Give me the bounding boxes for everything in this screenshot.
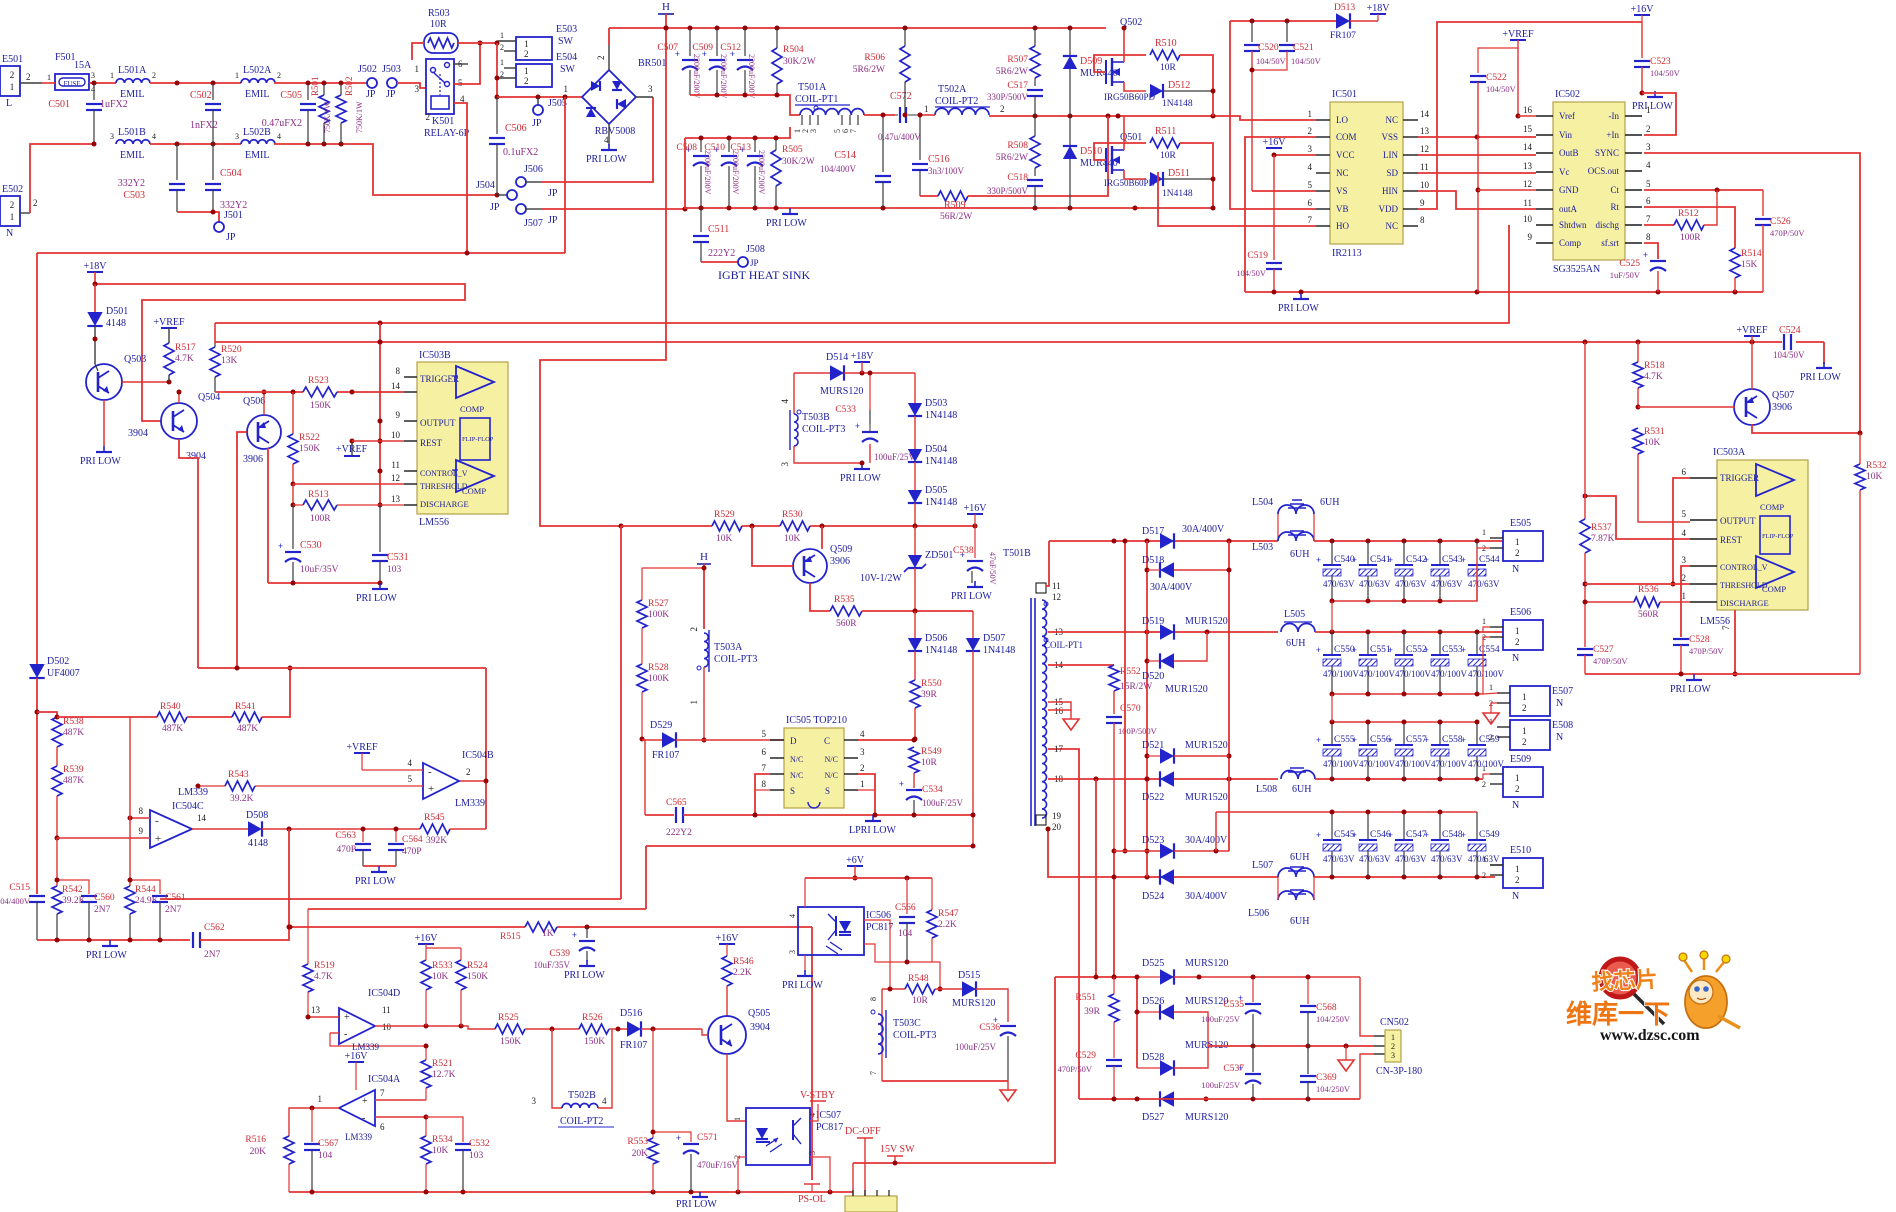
svg-text:COM: COM xyxy=(1336,132,1357,142)
svg-text:30A/400V: 30A/400V xyxy=(1150,582,1193,593)
svg-text:D525: D525 xyxy=(1142,958,1164,969)
svg-text:H: H xyxy=(662,1,670,13)
wire Q507 emitter xyxy=(1751,342,1753,390)
wire Ct xyxy=(1644,189,1763,191)
diode D505 xyxy=(914,462,916,490)
svg-text:R520: R520 xyxy=(221,345,242,355)
svg-text:R509: R509 xyxy=(944,200,966,211)
svg-text:13: 13 xyxy=(391,494,401,504)
svg-text:12: 12 xyxy=(1052,592,1061,602)
wire HIN-outA xyxy=(1418,191,1536,209)
svg-text:470/63V: 470/63V xyxy=(1431,854,1463,864)
svg-text:3: 3 xyxy=(1646,142,1651,152)
svg-text:C526: C526 xyxy=(1770,217,1791,227)
svg-text:10: 10 xyxy=(1523,214,1533,224)
svg-text:-In: -In xyxy=(1609,111,1620,121)
diode D521 xyxy=(1147,755,1160,757)
svg-text:C369: C369 xyxy=(1316,1073,1337,1083)
wire line y846 xyxy=(646,845,973,847)
svg-text:+: + xyxy=(1388,735,1393,745)
svg-text:17: 17 xyxy=(1054,744,1064,754)
svg-text:R551: R551 xyxy=(1075,993,1096,1003)
svg-text:D503: D503 xyxy=(925,398,947,409)
svg-text:1: 1 xyxy=(1482,855,1486,864)
svg-text:1: 1 xyxy=(564,84,569,94)
svg-text:5R6/2W: 5R6/2W xyxy=(996,67,1028,77)
svg-text:R536: R536 xyxy=(1638,585,1659,595)
svg-text:FUSE: FUSE xyxy=(63,80,80,88)
IC503A xyxy=(1717,460,1808,610)
svg-text:150K: 150K xyxy=(584,1037,605,1047)
wire Q507 base xyxy=(1638,406,1735,408)
svg-text:C553: C553 xyxy=(1442,645,1463,655)
wire pin15 16 gnd xyxy=(1048,702,1071,710)
wire GND pin xyxy=(1478,189,1536,191)
svg-text:470/100V: 470/100V xyxy=(1323,669,1360,679)
svg-text:7: 7 xyxy=(1308,215,1313,225)
svg-text:D504: D504 xyxy=(925,444,947,455)
svg-text:CONTROL_V: CONTROL_V xyxy=(420,469,468,478)
wire J506 to bridge+ xyxy=(526,181,542,183)
power +18V right xyxy=(1370,13,1386,15)
svg-text:PRI LOW: PRI LOW xyxy=(586,154,627,165)
svg-text:560R: 560R xyxy=(836,619,857,629)
svg-text:+: + xyxy=(1424,555,1429,565)
svg-text:R526: R526 xyxy=(582,1013,603,1023)
svg-text:E502: E502 xyxy=(2,184,23,195)
svg-text:PRI LOW: PRI LOW xyxy=(356,593,397,604)
svg-text:R528: R528 xyxy=(648,663,669,673)
svg-text:13: 13 xyxy=(311,1005,321,1015)
ground tri E507 xyxy=(1491,703,1497,713)
svg-text:D502: D502 xyxy=(47,656,69,667)
svg-text:104/250V: 104/250V xyxy=(1316,1084,1351,1094)
svg-text:VS: VS xyxy=(1336,186,1348,196)
wire COM down xyxy=(1245,137,1316,292)
wire cap row bus xyxy=(1332,693,1483,695)
svg-text:8: 8 xyxy=(762,779,767,789)
capacitor C547 xyxy=(1403,812,1405,840)
svg-text:IC502: IC502 xyxy=(1555,89,1580,100)
svg-text:1: 1 xyxy=(1482,617,1486,626)
wire R541 up to 668 xyxy=(262,668,290,717)
svg-text:2: 2 xyxy=(33,198,38,208)
svg-text:C528: C528 xyxy=(1689,635,1710,645)
svg-text:Q507: Q507 xyxy=(1772,390,1794,401)
svg-text:1: 1 xyxy=(10,82,15,92)
svg-text:4148: 4148 xyxy=(248,838,268,849)
svg-text:IC506: IC506 xyxy=(866,910,891,921)
svg-text:16: 16 xyxy=(1054,706,1064,716)
svg-text:104/50V: 104/50V xyxy=(1291,56,1322,66)
wire VS xyxy=(1252,190,1316,192)
connector E505 xyxy=(1503,531,1543,561)
resistor R532 right rail xyxy=(1859,433,1861,464)
svg-text:470/63V: 470/63V xyxy=(1323,854,1355,864)
svg-text:IC504B: IC504B xyxy=(462,750,494,761)
wire Q503 emitter xyxy=(103,400,105,446)
svg-text:4: 4 xyxy=(277,132,281,141)
wire cap row bus xyxy=(1332,565,1477,601)
capacitor C504 xyxy=(212,144,214,180)
svg-text:REST: REST xyxy=(420,438,443,448)
capacitor C536 xyxy=(1000,1025,1016,1027)
ground PRI LOW 503A xyxy=(1693,674,1695,680)
ground PRI LOW bank xyxy=(789,208,791,214)
resistor R535 xyxy=(830,606,862,616)
capacitor C538 xyxy=(974,526,976,558)
svg-text:4.7K: 4.7K xyxy=(1644,372,1663,382)
svg-text:E510: E510 xyxy=(1510,845,1531,856)
svg-text:IGBT HEAT SINK: IGBT HEAT SINK xyxy=(718,268,811,282)
svg-text:C538: C538 xyxy=(953,546,974,556)
svg-text:2: 2 xyxy=(1515,548,1520,558)
svg-text:+: + xyxy=(1388,645,1393,655)
wire IC507 pin2 xyxy=(738,1156,746,1158)
svg-text:10: 10 xyxy=(391,430,401,440)
transistor Q509 xyxy=(793,549,827,583)
svg-text:D517: D517 xyxy=(1142,526,1164,537)
svg-text:5R6/2W: 5R6/2W xyxy=(853,65,885,75)
svg-text:16: 16 xyxy=(1523,105,1533,115)
svg-text:EMIL: EMIL xyxy=(120,150,144,161)
ground bottom xyxy=(699,1192,701,1197)
jumper J501 xyxy=(214,222,224,232)
svg-text:470/63V: 470/63V xyxy=(1395,579,1427,589)
resistor R511 xyxy=(1150,138,1180,148)
capacitor C564 xyxy=(395,829,397,842)
capacitor C511 xyxy=(700,208,702,232)
svg-text:14: 14 xyxy=(1523,142,1533,152)
svg-text:470/100V: 470/100V xyxy=(1359,669,1396,679)
svg-text:47uF/50V: 47uF/50V xyxy=(988,552,997,585)
power +16V Q505 xyxy=(719,943,735,945)
svg-text:维库一下: 维库一下 xyxy=(1566,999,1670,1029)
svg-text:5: 5 xyxy=(1646,179,1651,189)
diode D513 xyxy=(1336,13,1350,28)
svg-text:T502B: T502B xyxy=(568,1090,596,1101)
svg-text:+: + xyxy=(572,930,577,940)
svg-text:10K: 10K xyxy=(432,1146,449,1156)
svg-text:T503C: T503C xyxy=(893,1018,921,1029)
svg-text:C517: C517 xyxy=(1007,81,1028,91)
svg-text:+VREF: +VREF xyxy=(153,317,185,328)
svg-text:1: 1 xyxy=(10,212,15,222)
ground bridge xyxy=(608,124,610,146)
wire R547 down xyxy=(930,962,940,989)
svg-text:3: 3 xyxy=(1308,144,1313,154)
svg-text:2N7: 2N7 xyxy=(165,905,182,915)
power +18V xyxy=(87,271,103,273)
svg-text:2: 2 xyxy=(1482,780,1486,789)
svg-text:LM556: LM556 xyxy=(419,517,449,528)
inductor L502B xyxy=(241,140,275,144)
svg-text:R518: R518 xyxy=(1644,361,1665,371)
svg-text:PC817: PC817 xyxy=(816,1122,843,1133)
capacitor C369 xyxy=(1307,1046,1309,1074)
svg-text:D506: D506 xyxy=(925,633,947,644)
wire relay pin6 xyxy=(454,63,468,65)
svg-text:JP: JP xyxy=(750,258,759,268)
svg-text:Ct: Ct xyxy=(1610,185,1619,195)
svg-text:E503: E503 xyxy=(556,24,577,35)
svg-text:PRI LOW: PRI LOW xyxy=(840,473,881,484)
svg-text:470/63V: 470/63V xyxy=(1359,579,1391,589)
svg-text:C532: C532 xyxy=(469,1139,490,1149)
svg-text:R552: R552 xyxy=(1120,667,1141,677)
svg-text:8: 8 xyxy=(139,806,144,816)
capacitor C501 xyxy=(93,83,95,100)
svg-text:1: 1 xyxy=(500,31,504,40)
svg-text:2: 2 xyxy=(1522,703,1527,713)
IC505 TOP210 xyxy=(784,728,844,808)
svg-text:LM339: LM339 xyxy=(345,1132,373,1142)
svg-text:5: 5 xyxy=(1682,509,1687,519)
capacitor C519 xyxy=(1273,155,1275,260)
capacitor C502 xyxy=(212,83,214,100)
zener ZD501 xyxy=(914,526,916,555)
svg-text:470P/50V: 470P/50V xyxy=(1689,646,1724,656)
svg-text:JP: JP xyxy=(548,215,558,226)
wire 15V SW line xyxy=(853,977,1055,1163)
svg-text:N: N xyxy=(1512,891,1519,902)
svg-text:PRI LOW: PRI LOW xyxy=(564,970,605,981)
svg-text:3: 3 xyxy=(110,132,114,141)
svg-text:D: D xyxy=(790,736,797,746)
wire xyxy=(274,82,367,84)
svg-text:7: 7 xyxy=(869,1071,878,1075)
svg-text:+: + xyxy=(1316,830,1321,840)
svg-text:+: + xyxy=(1461,735,1466,745)
svg-text:JP: JP xyxy=(490,202,500,213)
wire gnd line y940 xyxy=(37,939,190,941)
wire IC504D out xyxy=(375,1026,495,1029)
svg-text:C507: C507 xyxy=(657,43,678,53)
svg-text:2: 2 xyxy=(689,627,699,632)
capacitor C537 xyxy=(1252,1046,1254,1072)
svg-text:+18V: +18V xyxy=(1367,3,1391,14)
wire pin13 line632 xyxy=(1048,631,1278,633)
wire output col x380 xyxy=(379,323,381,505)
svg-text:T503B: T503B xyxy=(802,412,830,423)
svg-text:6UH: 6UH xyxy=(1290,916,1309,927)
capacitor C513 xyxy=(754,138,756,152)
svg-text:C564: C564 xyxy=(402,835,423,845)
svg-text:750K/1W: 750K/1W xyxy=(323,101,332,133)
svg-text:30K/2W: 30K/2W xyxy=(783,57,816,67)
svg-text:2: 2 xyxy=(1000,104,1005,114)
svg-text:1: 1 xyxy=(1489,683,1493,692)
svg-text:FLIP-FLOP: FLIP-FLOP xyxy=(462,436,494,443)
svg-text:R527: R527 xyxy=(648,599,669,609)
svg-text:2: 2 xyxy=(1515,637,1520,647)
wire IC507 pin3 xyxy=(810,1157,830,1192)
svg-text:+16V: +16V xyxy=(1631,4,1655,15)
capacitor C528 xyxy=(1673,638,1689,640)
svg-text:150K: 150K xyxy=(299,444,320,454)
svg-text:C516: C516 xyxy=(928,154,950,165)
svg-text:+: + xyxy=(1461,645,1466,655)
svg-text:PRI LOW: PRI LOW xyxy=(1800,372,1841,383)
wire REST line xyxy=(352,440,404,442)
svg-text:3: 3 xyxy=(1391,1051,1395,1060)
svg-text:Q503: Q503 xyxy=(124,354,146,365)
svg-text:2200uF/200V: 2200uF/200V xyxy=(692,54,701,99)
svg-text:IR2113: IR2113 xyxy=(1332,248,1362,259)
svg-text:1nFX2: 1nFX2 xyxy=(190,120,218,131)
svg-text:C562: C562 xyxy=(204,923,225,933)
svg-text:4148: 4148 xyxy=(106,318,126,329)
svg-text:470P/50V: 470P/50V xyxy=(1593,656,1628,666)
svg-text:R546: R546 xyxy=(733,957,754,967)
resistor R506 xyxy=(904,28,906,46)
svg-text:R553: R553 xyxy=(627,1137,648,1147)
svg-text:R524: R524 xyxy=(467,961,488,971)
svg-text:N: N xyxy=(1512,653,1519,664)
svg-text:IC504D: IC504D xyxy=(368,988,400,999)
svg-text:100K: 100K xyxy=(648,610,669,620)
svg-text:F501: F501 xyxy=(55,52,76,63)
svg-text:1: 1 xyxy=(1308,109,1313,119)
svg-text:C520: C520 xyxy=(1258,43,1279,53)
svg-text:C537: C537 xyxy=(1223,1064,1244,1074)
wire pin11 to line541 xyxy=(1046,541,1049,586)
wire L507 out xyxy=(1314,876,1495,878)
svg-text:+: + xyxy=(1352,555,1357,565)
svg-text:30A/400V: 30A/400V xyxy=(1185,835,1228,846)
connector E509 xyxy=(1503,767,1543,797)
wire Q503 base xyxy=(122,381,169,383)
svg-text:JP: JP xyxy=(532,118,542,129)
svg-text:D511: D511 xyxy=(1168,168,1190,179)
svg-text:150K: 150K xyxy=(500,1037,521,1047)
svg-text:OutB: OutB xyxy=(1559,148,1579,158)
diode D523 xyxy=(1114,850,1160,852)
svg-text:11: 11 xyxy=(1523,198,1532,208)
svg-text:2: 2 xyxy=(1682,573,1687,583)
ground T503B xyxy=(861,463,863,469)
svg-text:C519: C519 xyxy=(1247,251,1268,261)
svg-text:4.7K: 4.7K xyxy=(175,354,194,364)
svg-text:DC-OFF: DC-OFF xyxy=(845,1126,881,1137)
svg-text:104/50V: 104/50V xyxy=(1773,350,1805,360)
svg-text:6UH: 6UH xyxy=(1286,638,1305,649)
wire threshold line xyxy=(293,483,404,485)
svg-text:LM556: LM556 xyxy=(1700,616,1730,627)
wire SD-Vc xyxy=(1418,172,1536,174)
svg-text:1: 1 xyxy=(1522,726,1527,736)
capacitor C548 xyxy=(1439,812,1441,840)
svg-text:2: 2 xyxy=(596,56,606,61)
inductor L504 L503 xyxy=(1277,514,1279,541)
IC501 IR2113 xyxy=(1330,102,1403,244)
svg-text:2200uF/200V: 2200uF/200V xyxy=(757,150,766,195)
svg-text:10R: 10R xyxy=(430,19,447,30)
svg-text:1: 1 xyxy=(733,1117,742,1121)
resistor R541 xyxy=(232,712,262,722)
resistor R545 xyxy=(420,824,450,834)
wire shtdwn long line y323 xyxy=(215,225,1509,323)
transistor Q503 xyxy=(86,364,122,400)
svg-text:3: 3 xyxy=(860,747,865,757)
svg-text:470P/50V: 470P/50V xyxy=(1770,228,1805,238)
svg-text:SYNC: SYNC xyxy=(1595,148,1619,158)
wire IC506 pin3 gnd xyxy=(804,955,806,972)
svg-text:+In: +In xyxy=(1606,130,1619,140)
resistor R513 xyxy=(292,484,294,505)
svg-text:487K: 487K xyxy=(63,728,84,738)
svg-text:CN-3P-180: CN-3P-180 xyxy=(1376,1066,1422,1077)
svg-text:HIN: HIN xyxy=(1382,186,1398,196)
svg-text:470/63V: 470/63V xyxy=(1395,854,1427,864)
svg-text:14: 14 xyxy=(1420,109,1430,119)
svg-text:3904: 3904 xyxy=(750,1022,770,1033)
svg-text:+VREF: +VREF xyxy=(1502,29,1534,40)
wire bottom-right top line xyxy=(1055,976,1137,978)
svg-text:D501: D501 xyxy=(106,306,128,317)
capacitor C516 xyxy=(919,115,921,160)
svg-text:1: 1 xyxy=(1646,105,1651,115)
diode D529 xyxy=(642,739,662,741)
svg-text:2.2K: 2.2K xyxy=(733,968,752,978)
svg-text:LM339: LM339 xyxy=(178,787,208,798)
ground tri CN502 xyxy=(1345,1046,1347,1060)
svg-text:7: 7 xyxy=(849,129,858,133)
svg-text:S: S xyxy=(825,786,830,796)
wire lower bank vert xyxy=(684,138,686,209)
svg-text:C529: C529 xyxy=(1075,1051,1096,1061)
svg-text:+VREF: +VREF xyxy=(346,742,378,753)
svg-text:C527: C527 xyxy=(1593,645,1614,655)
capacitor C570 xyxy=(1113,691,1115,714)
wire T501B p17 xyxy=(1048,749,1079,1099)
svg-text:12: 12 xyxy=(1420,144,1429,154)
svg-text:N: N xyxy=(6,228,13,239)
jumper J505 xyxy=(537,97,539,105)
svg-text:E506: E506 xyxy=(1510,607,1531,618)
svg-text:1: 1 xyxy=(47,73,51,82)
svg-text:103: 103 xyxy=(469,1151,484,1161)
svg-text:MURS120: MURS120 xyxy=(1185,1112,1228,1123)
wire bottom line 1099 xyxy=(1079,1098,1360,1100)
capacitor C539 xyxy=(586,927,588,938)
svg-text:T503A: T503A xyxy=(714,642,743,653)
svg-text:N: N xyxy=(1556,698,1563,709)
svg-text:2N7: 2N7 xyxy=(204,950,221,960)
svg-text:E501: E501 xyxy=(2,54,23,65)
svg-text:DISCHARGE: DISCHARGE xyxy=(420,499,469,509)
svg-text:2: 2 xyxy=(1308,126,1313,136)
svg-text:R502: R502 xyxy=(344,76,354,96)
svg-text:R541: R541 xyxy=(235,702,256,712)
svg-text:2200uF/200V: 2200uF/200V xyxy=(719,54,728,99)
svg-text:3906: 3906 xyxy=(243,454,263,465)
wire pin19 20 xyxy=(1046,829,1278,877)
svg-text:150K: 150K xyxy=(467,972,488,982)
svg-text:2: 2 xyxy=(1522,737,1527,747)
wire +In link xyxy=(1642,93,1676,135)
svg-text:3: 3 xyxy=(415,84,420,94)
resistor R527 xyxy=(641,568,643,600)
resistor R521 xyxy=(421,1060,431,1088)
svg-text:3: 3 xyxy=(532,1096,537,1106)
svg-text:COIL-PT3: COIL-PT3 xyxy=(714,654,757,665)
svg-text:8: 8 xyxy=(396,366,401,376)
ground tri T503C xyxy=(1007,1081,1009,1090)
relay K501 xyxy=(426,59,454,114)
wire Q504 collector xyxy=(178,392,180,403)
wire cap bank mid bus xyxy=(690,95,800,115)
